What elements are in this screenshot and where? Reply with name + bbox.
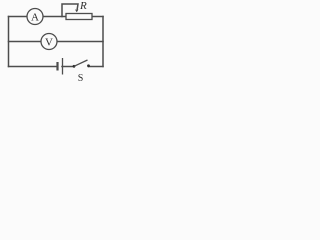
battery long plate bbox=[62, 58, 64, 75]
wire middle rail left bbox=[9, 41, 42, 43]
wire resistor right stub bbox=[92, 16, 103, 18]
svg-text:R: R bbox=[79, 0, 87, 12]
wire rheostat slider riser bbox=[62, 4, 78, 17]
svg-text:A: A bbox=[31, 12, 39, 24]
wire top-left rail bbox=[9, 16, 28, 18]
wire battery to switch bbox=[62, 66, 74, 68]
switch pivot dot bbox=[73, 65, 76, 68]
battery short plate bbox=[56, 62, 58, 71]
wire left vertical bbox=[8, 17, 10, 67]
wire bottom rail left bbox=[9, 66, 58, 68]
wire middle rail right bbox=[57, 41, 103, 43]
switch blade bbox=[74, 60, 88, 66]
wire switch to right corner bbox=[89, 66, 104, 68]
wire right vertical bbox=[102, 17, 104, 67]
svg-text:S: S bbox=[78, 73, 84, 84]
svg-text:V: V bbox=[45, 37, 53, 49]
switch contact dot bbox=[87, 64, 90, 67]
ammeter A bbox=[27, 9, 43, 25]
voltmeter V bbox=[41, 34, 57, 50]
wire ammeter to resistor bbox=[43, 16, 66, 18]
rheostat arrowhead bbox=[75, 9, 79, 12]
resistor box R bbox=[66, 14, 92, 20]
background bbox=[0, 0, 108, 90]
